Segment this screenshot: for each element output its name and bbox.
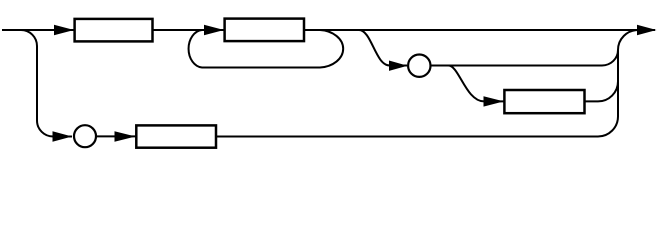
wire: circle U4 to box B4 <box>97 135 136 137</box>
box B2 (top row, second, with repeat loop) <box>225 19 304 41</box>
arrowhead A6 (into box B3) <box>484 96 504 106</box>
wire: rect1 to rect2 <box>154 29 225 31</box>
arrowhead A4 (into box B4) <box>115 131 136 141</box>
arrowhead A5 (into circle U2) <box>389 61 408 71</box>
wire: rect3 exit to right collector <box>585 81 619 101</box>
box B3 (middle row) <box>504 90 584 113</box>
circle U2 (middle row terminal) <box>408 54 430 76</box>
arrowhead A7 (final output) <box>637 25 657 35</box>
arrowhead A3 (into circle U4) <box>53 131 73 141</box>
wire: bottom row exit to right collector <box>216 117 618 137</box>
box B1 (top row, first) <box>75 19 153 42</box>
circle U4 (bottom row terminal) <box>74 125 96 147</box>
box B4 (bottom row) <box>136 125 216 147</box>
wire: left branch down to bottom row <box>21 30 72 137</box>
wire: repeat loop under rect2 <box>189 30 344 68</box>
wire: main entry line <box>2 29 74 31</box>
wire: right collector vertical up to top line <box>618 30 638 117</box>
arrowhead A2 (into box B2) <box>204 25 224 35</box>
wire: S-branch from top line to circle U2 <box>359 30 407 66</box>
wire: S-branch from circle row to rect3 <box>449 66 504 102</box>
wire: rect2 exit to final arrow <box>305 29 655 31</box>
wire: circle U2 exit to right collector <box>431 50 618 66</box>
arrowhead A1 (into box B1) <box>54 25 74 35</box>
